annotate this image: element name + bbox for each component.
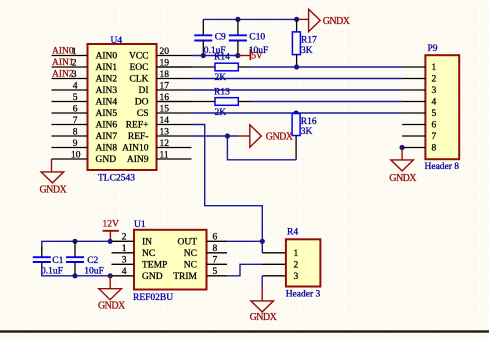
svg-text:C9: C9 — [215, 32, 226, 42]
wire U4 left pin row 9 — [52, 147, 88, 149]
IC U4 TLC2543 body — [88, 44, 157, 170]
svg-text:NC: NC — [184, 249, 197, 259]
wire REF+ to U1 OUT — [192, 125, 263, 242]
R4 pin number 3 — [294, 272, 299, 282]
U4 pin name AIN1 — [96, 63, 118, 73]
wire 12V rail to C1 — [42, 241, 112, 251]
U4 pin name EOC — [130, 63, 149, 73]
wire to top right ground — [297, 18, 309, 20]
wire REF- to middle ground — [238, 135, 250, 137]
svg-text:AIN9: AIN9 — [127, 155, 149, 165]
svg-text:AIN7: AIN7 — [96, 132, 118, 142]
svg-text:8: 8 — [432, 144, 437, 154]
wire U4 right pin 14 stub — [157, 124, 192, 126]
wire U4 right pin 13 stub — [157, 135, 192, 137]
svg-text:3: 3 — [432, 86, 437, 96]
wire R4 pin3 stub — [262, 275, 286, 277]
svg-text:TEMP: TEMP — [142, 261, 167, 271]
svg-text:REF-: REF- — [128, 132, 149, 142]
wire U4 right pin 19 stub — [157, 66, 192, 68]
U4 value label TLC2543 — [98, 174, 135, 184]
wire VCC to capacitors — [192, 55, 238, 57]
svg-text:GNDX: GNDX — [98, 300, 126, 311]
wire U4 left pin row 2 — [52, 66, 88, 68]
wire U1 right pin 5 stub — [207, 275, 228, 277]
R4 pin number 1 — [294, 249, 299, 259]
wire R4 pin2 stub — [262, 263, 286, 265]
U4 pin name AIN5 — [96, 109, 118, 119]
wire U4 right pin 15 stub — [157, 112, 192, 114]
wire U4 left pin row 10 — [52, 158, 88, 160]
U4 pin number 2 — [72, 58, 77, 68]
U1 pin number 2 — [122, 233, 127, 243]
svg-text:1: 1 — [432, 63, 437, 73]
U1 pin number 6 — [213, 233, 218, 243]
U4 pin name AIN7 — [96, 132, 118, 142]
wire R14 to P9 pin1 — [238, 66, 402, 68]
U4 pin name REF- — [128, 132, 149, 142]
svg-text:C2: C2 — [87, 256, 98, 266]
svg-text:R14: R14 — [214, 52, 230, 62]
svg-text:5: 5 — [432, 109, 437, 119]
svg-text:VCC: VCC — [129, 52, 149, 62]
wire P9 pin 3 stub — [402, 89, 425, 91]
U1 pin number 4 — [122, 267, 127, 277]
IC U1 REF02BU body — [134, 230, 207, 290]
wire TRIM to R4 pin2 — [227, 264, 262, 276]
svg-text:CLK: CLK — [130, 75, 149, 85]
node C10 bottom junction — [235, 53, 240, 58]
svg-text:GNDX: GNDX — [250, 312, 278, 323]
U4 designator label — [111, 36, 123, 46]
U4 pin number 3 — [72, 70, 77, 80]
P9 value label Header 8 — [425, 162, 460, 172]
svg-text:GNDX: GNDX — [266, 132, 294, 143]
wire DI to P9 pin3 — [192, 89, 403, 91]
U4 pin number 20 — [160, 47, 170, 57]
svg-text:GND: GND — [96, 155, 117, 165]
wire U1 left pin 2 stub — [112, 240, 135, 242]
svg-text:AIN4: AIN4 — [96, 98, 118, 108]
ground GNDX middle — [250, 125, 294, 147]
ground GNDX top right — [309, 9, 351, 31]
U1 pin name GND — [142, 272, 163, 282]
U4 pin number 15 — [160, 104, 170, 114]
svg-text:6: 6 — [432, 121, 437, 131]
svg-text:R13: R13 — [214, 87, 230, 97]
wire U4 left pin row 7 — [52, 124, 88, 126]
wire P9 pin 4 stub — [402, 101, 425, 103]
wire REF- to R16 bottom — [227, 136, 296, 160]
net label AIN0 — [52, 47, 74, 57]
svg-text:1: 1 — [72, 47, 77, 57]
U1 pin name TEMP — [142, 261, 167, 271]
wire R13 to P9 pin4 — [238, 101, 402, 103]
wire U4 left pin row 6 — [52, 112, 88, 114]
svg-text:REF02BU: REF02BU — [133, 293, 173, 303]
U4 pin number 11 — [160, 150, 169, 160]
U4 pin number 18 — [160, 70, 170, 80]
node R17 top junction — [294, 17, 299, 22]
svg-text:AIN3: AIN3 — [96, 86, 118, 96]
P9 pin number 7 — [432, 132, 437, 142]
U4 pin name AIN2 — [96, 75, 118, 85]
wire ground rail under C1 C2 — [42, 266, 112, 276]
net label AIN1 — [52, 58, 74, 68]
U1 pin name NC — [142, 249, 155, 259]
U4 pin name REF+ — [126, 121, 149, 131]
U1 designator label — [134, 220, 146, 230]
wire U4 left pin row 4 — [52, 89, 88, 91]
wire U4 right pin 18 stub — [157, 78, 192, 80]
power +5V port — [238, 49, 263, 60]
net label AIN2 — [52, 70, 74, 80]
svg-text:P9: P9 — [428, 44, 438, 54]
resistor R14 2K — [157, 52, 239, 83]
svg-text:REF+: REF+ — [126, 121, 149, 131]
svg-text:IN: IN — [142, 238, 152, 248]
resistor R13 2K — [157, 87, 239, 118]
svg-text:7: 7 — [432, 132, 437, 142]
P9 pin number 2 — [432, 75, 437, 85]
node R17 bottom junction — [294, 64, 299, 69]
wire U4 right pin 17 stub — [157, 89, 192, 91]
svg-text:GNDX: GNDX — [323, 16, 351, 27]
wire P9 pin 6 stub — [402, 124, 425, 126]
svg-text:GNDX: GNDX — [389, 173, 417, 184]
svg-text:3: 3 — [72, 70, 77, 80]
U4 pin name AIN9 — [127, 155, 149, 165]
U4 pin number 8 — [73, 127, 78, 137]
wire U4 left pin row 5 — [52, 101, 88, 103]
wire U4 right pin 11 stub — [157, 158, 192, 160]
svg-text:DO: DO — [135, 98, 149, 108]
svg-text:R4: R4 — [287, 228, 298, 238]
svg-text:2: 2 — [294, 261, 299, 271]
U1 pin number 8 — [213, 244, 218, 254]
wire U4 left pin row 3 — [52, 78, 88, 80]
node C2 top junction — [72, 239, 77, 244]
ground GNDX under U1 — [98, 289, 126, 312]
U1 pin name IN — [142, 238, 152, 248]
U4 pin number 16 — [160, 93, 170, 103]
node OUT junction — [260, 239, 265, 244]
svg-text:Header 8: Header 8 — [425, 162, 460, 172]
svg-text:GNDX: GNDX — [40, 184, 68, 195]
svg-text:EOC: EOC — [130, 63, 149, 73]
svg-text:AIN2: AIN2 — [96, 75, 118, 85]
U1 pin name NC — [184, 249, 197, 259]
svg-text:U1: U1 — [134, 220, 146, 230]
wire U1 right pin 8 stub — [207, 252, 228, 254]
wire P9 pin 7 stub — [402, 135, 425, 137]
R4 value label Header 3 — [286, 290, 321, 300]
capacitor C9 0.1uF — [194, 19, 226, 56]
P9 pin number 5 — [432, 109, 437, 119]
U4 pin number 10 — [71, 150, 81, 160]
wire U1 GND to ground — [109, 276, 111, 289]
U4 pin number 17 — [160, 81, 170, 91]
svg-text:R16: R16 — [301, 117, 317, 127]
wire U1 left pin 4 stub — [112, 275, 135, 277]
U4 pin name AIN6 — [96, 121, 118, 131]
svg-text:U4: U4 — [111, 36, 123, 46]
U1 pin number 7 — [213, 256, 218, 266]
svg-text:AIN5: AIN5 — [96, 109, 118, 119]
wire node to R4 pin1 — [261, 241, 263, 253]
svg-text:DI: DI — [138, 86, 148, 96]
U4 pin number 5 — [73, 93, 78, 103]
U4 pin number 7 — [73, 116, 78, 126]
U4 pin name CS — [137, 109, 149, 119]
wire U1 right pin 6 stub — [207, 240, 228, 242]
P9 pin number 4 — [432, 98, 437, 108]
wire U1 OUT to node — [227, 240, 262, 242]
wire R4 pin1 stub — [262, 252, 286, 254]
svg-text:2: 2 — [72, 58, 77, 68]
wire U4 left pin row 8 — [52, 135, 88, 137]
svg-text:TLC2543: TLC2543 — [98, 174, 135, 184]
U1 pin name NC — [184, 261, 197, 271]
U4 pin name AIN4 — [96, 98, 118, 108]
U1 pin number 5 — [213, 267, 218, 277]
R4 designator label — [287, 228, 298, 238]
node R16 top junction — [294, 110, 299, 115]
U4 pin number 6 — [73, 104, 78, 114]
U4 pin number 1 — [72, 47, 77, 57]
svg-text:12V: 12V — [103, 220, 120, 230]
P9 pin number 1 — [432, 63, 437, 73]
wire U4 right pin 16 stub — [157, 101, 192, 103]
svg-text:NC: NC — [184, 261, 197, 271]
node REF- junction — [225, 133, 230, 138]
svg-text:C1: C1 — [52, 256, 63, 266]
wire U4 left pin row 1 — [52, 55, 88, 57]
P9 designator label — [428, 44, 438, 54]
svg-text:AIN1: AIN1 — [52, 58, 74, 68]
svg-text:Header 3: Header 3 — [286, 290, 321, 300]
wire U1 left pin 3 stub — [112, 263, 135, 265]
U1 pin name TRIM — [173, 272, 197, 282]
wire P9 pin 2 stub — [402, 78, 425, 80]
connector R4 Header 3 body — [286, 239, 321, 286]
wire R4 pin3 to ground — [261, 276, 263, 301]
capacitor C10 10uF — [229, 19, 268, 56]
P9 pin number 6 — [432, 121, 437, 131]
U4 pin number 19 — [160, 58, 170, 68]
U4 pin name AIN3 — [96, 86, 118, 96]
svg-text:1: 1 — [294, 249, 299, 259]
node C9 bottom junction — [201, 53, 206, 58]
wire U4 right pin 20 stub — [157, 55, 192, 57]
U4 pin number 14 — [160, 116, 170, 126]
U4 pin name CLK — [130, 75, 149, 85]
node C10 top junction — [235, 17, 240, 22]
node P9 pin8 junction — [400, 145, 405, 150]
U4 pin name AIN8 — [96, 144, 118, 154]
wire P9 pin8 to ground — [401, 148, 403, 160]
svg-text:AIN0: AIN0 — [52, 47, 74, 57]
svg-text:3K: 3K — [301, 46, 313, 56]
svg-text:AIN10: AIN10 — [122, 144, 149, 154]
svg-text:OUT: OUT — [177, 238, 197, 248]
wire P9 pin 5 stub — [402, 112, 425, 114]
wire REF- horizontal — [192, 135, 239, 137]
svg-text:4: 4 — [432, 98, 437, 108]
svg-text:NC: NC — [142, 249, 155, 259]
capacitor C1 0.1uF — [33, 247, 64, 277]
svg-text:AIN2: AIN2 — [52, 70, 74, 80]
U4 pin name GND — [96, 155, 117, 165]
svg-text:3K: 3K — [301, 127, 313, 137]
U4 pin name DI — [138, 86, 148, 96]
resistor R16 3K — [292, 113, 317, 160]
svg-text:AIN8: AIN8 — [96, 144, 118, 154]
svg-text:3: 3 — [294, 272, 299, 282]
U4 pin name VCC — [129, 52, 149, 62]
U1 pin number 3 — [122, 256, 127, 266]
svg-text:AIN6: AIN6 — [96, 121, 118, 131]
wire CS to P9 pin5 — [192, 112, 403, 114]
svg-text:TRIM: TRIM — [173, 272, 197, 282]
U4 pin name AIN0 — [96, 52, 118, 62]
wire CLK to P9 pin2 — [192, 78, 403, 80]
R4 pin number 2 — [294, 261, 299, 271]
U1 pin name OUT — [177, 238, 197, 248]
wire U4 right pin 12 stub — [157, 147, 192, 149]
U4 pin number 9 — [73, 139, 78, 149]
svg-text:GND: GND — [142, 272, 163, 282]
power 12V port — [103, 220, 120, 242]
wire U1 right pin 7 stub — [207, 263, 228, 265]
wire P9 pin 8 stub — [402, 147, 425, 149]
svg-text:5V: 5V — [252, 50, 264, 60]
U4 pin number 4 — [73, 81, 78, 91]
node C2 bottom junction — [72, 273, 77, 278]
ground GNDX under P9 — [389, 160, 417, 184]
P9 pin number 3 — [432, 86, 437, 96]
svg-text:C10: C10 — [249, 32, 265, 42]
U1 pin number 1 — [122, 244, 127, 254]
wire U4 GND down — [51, 159, 53, 172]
U4 pin name AIN10 — [122, 144, 149, 154]
wire P9 pin 1 stub — [402, 66, 425, 68]
wire U1 left pin 1 stub — [112, 252, 135, 254]
U4 pin number 13 — [160, 127, 170, 137]
resistor R17 3K — [292, 19, 317, 67]
ground GNDX under R4 — [250, 301, 278, 323]
node 12V junction — [108, 239, 113, 244]
U4 pin number 12 — [160, 139, 170, 149]
svg-text:AIN1: AIN1 — [96, 63, 118, 73]
svg-text:R17: R17 — [301, 36, 317, 46]
capacitor C2 10uF — [66, 241, 104, 276]
node U1 GND junction — [108, 273, 113, 278]
P9 pin number 8 — [432, 144, 437, 154]
svg-text:2: 2 — [432, 75, 437, 85]
ground GNDX under U4 — [40, 172, 68, 195]
U1 value label REF02BU — [133, 293, 173, 303]
U4 pin name DO — [135, 98, 149, 108]
connector P9 Header 8 body — [425, 55, 459, 159]
svg-text:CS: CS — [137, 109, 149, 119]
svg-text:AIN0: AIN0 — [96, 52, 118, 62]
wire top ground net — [203, 18, 296, 20]
